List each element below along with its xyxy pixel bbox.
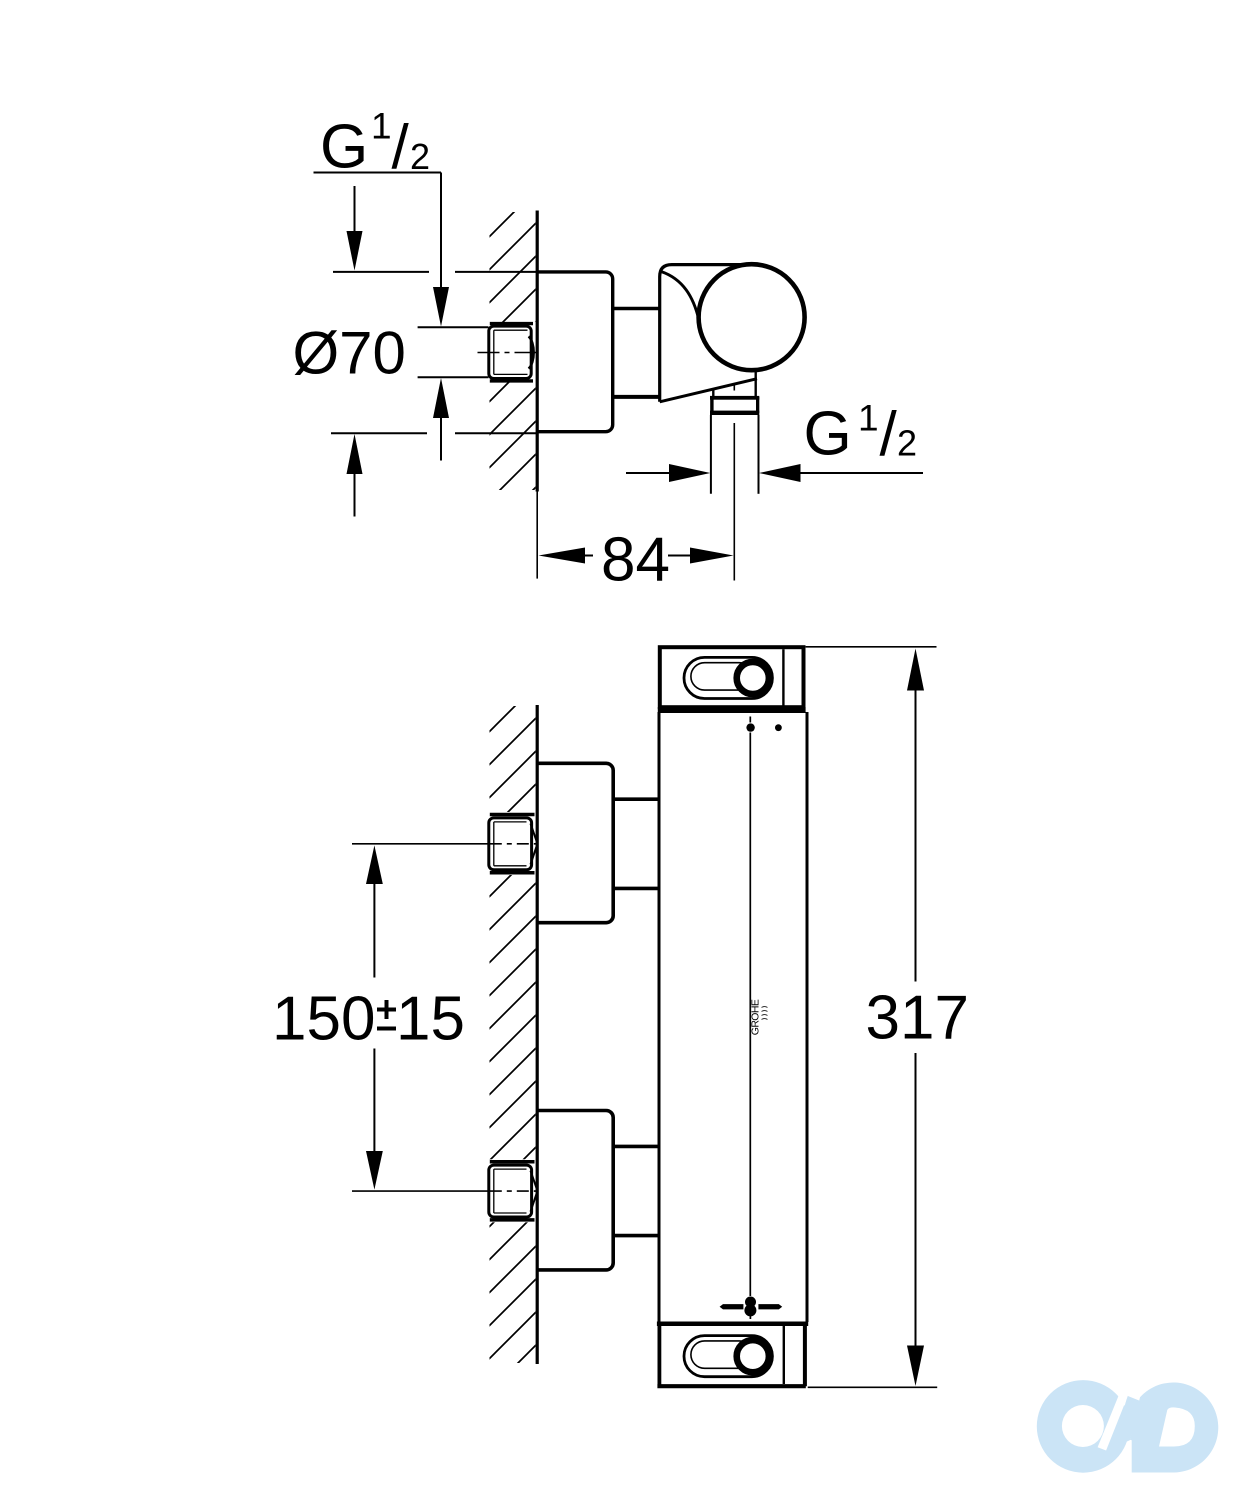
extension lines at flange top y=271.9 (333, 271, 537, 273)
svg-text:84: 84 (601, 526, 670, 595)
outlet stub lines below knob (713, 372, 755, 397)
wall hatching (bottom view) (490, 706, 536, 1363)
bottom cap knob circle (737, 1340, 769, 1372)
top cap slot (pill) (684, 657, 772, 698)
top cap (temperature handle) (658, 647, 806, 710)
label G 1/2 (top-left thread callout) (320, 106, 430, 183)
svg-text:317: 317 (866, 984, 969, 1053)
150±15 dimension (272, 845, 465, 1189)
union nut (top view) (489, 326, 534, 378)
upper union centre line (352, 843, 537, 845)
upper connection stub (613, 799, 658, 888)
svg-text:150: 150 (272, 985, 375, 1054)
svg-text:1: 1 (371, 106, 392, 147)
dimension arrow up to flange bottom (x=354.5) (347, 434, 363, 517)
svg-text:G: G (804, 400, 852, 469)
outlet marker (drop + dashes) (720, 1297, 783, 1320)
index dots (746, 723, 781, 731)
body centre line (749, 717, 751, 1297)
wall hatching (top view) (490, 212, 536, 490)
svg-text:G: G (320, 113, 368, 182)
svg-text:1: 1 (858, 398, 879, 439)
upper union bars (490, 815, 535, 873)
84 dimension (539, 526, 734, 595)
union centre line (dash-dot, top view) (478, 352, 537, 354)
wall extension line down to 84 dim (536, 492, 538, 579)
svg-text:2: 2 (410, 136, 430, 177)
svg-text:Ø70: Ø70 (293, 320, 406, 387)
watermark logo (1037, 1380, 1218, 1473)
escutcheon flange (top view) (537, 272, 613, 432)
outlet centre line (733, 385, 735, 581)
label G 1/2 (outlet) (804, 398, 918, 470)
upper escutcheon flange (537, 763, 613, 922)
lower union nut (489, 1165, 537, 1217)
svg-text:GROHE: GROHE (750, 999, 762, 1035)
bottom cap (657, 1324, 808, 1386)
outlet nut (top view) (710, 396, 759, 415)
bottom cap slot (pill) (684, 1336, 772, 1377)
nut dimension lines y=327.3 and y=377.3 (418, 327, 489, 377)
upper union nut (489, 818, 537, 870)
lower connection stub (613, 1146, 658, 1235)
temperature knob circle (top view) (699, 264, 805, 370)
dimension arrow down to flange top (x=354.5) (347, 186, 363, 271)
wall edge line (top view) (536, 211, 539, 492)
svg-text:2: 2 (897, 423, 917, 464)
top cap knob circle (737, 662, 769, 694)
lower union bars (490, 1162, 535, 1220)
svg-text:15: 15 (396, 985, 465, 1054)
connection stub (top view) (613, 309, 660, 397)
lower union centre line (352, 1190, 537, 1192)
mixer body sides (659, 712, 807, 1322)
svg-text:/: / (880, 400, 898, 469)
outlet pipe lines (711, 415, 759, 494)
wall edge line (bottom view) (536, 705, 539, 1364)
union body bars behind wall (top view) (490, 324, 533, 381)
valve body outline (top view) (660, 265, 757, 402)
dimension arrow up to nut bottom (x=441) (433, 378, 449, 461)
extension lines at flange bottom y=433.2 (331, 432, 537, 434)
lower escutcheon flange (537, 1111, 613, 1270)
GROHE mini logo (750, 999, 768, 1035)
317 dimension (806, 647, 969, 1388)
leader arrow to union nut (x=441) (433, 173, 449, 327)
G 1/2 outlet dimension arrows (626, 464, 923, 482)
leader underline of G 1/2 (314, 172, 442, 174)
